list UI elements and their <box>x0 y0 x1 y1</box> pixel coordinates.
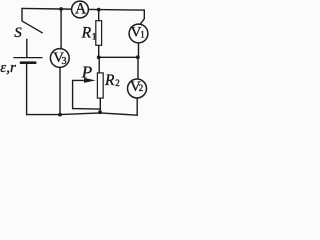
svg-text:2: 2 <box>139 83 144 93</box>
svg-text:A: A <box>75 1 87 18</box>
svg-text:P: P <box>81 62 92 81</box>
svg-text:3: 3 <box>62 56 67 67</box>
svg-text:R: R <box>104 72 115 89</box>
svg-text:S: S <box>14 25 22 41</box>
svg-text:1: 1 <box>140 29 145 39</box>
svg-text:2: 2 <box>115 78 120 88</box>
svg-text:ε,r: ε,r <box>0 60 16 76</box>
svg-text:1: 1 <box>92 33 97 43</box>
svg-text:R: R <box>81 24 92 41</box>
